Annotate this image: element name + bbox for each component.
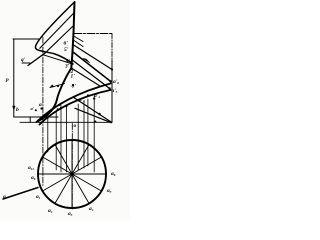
projection vertical 3 [60, 109, 62, 172]
horizontal construction line [74, 33, 112, 35]
svg-text:a': a' [39, 102, 44, 108]
projection vertical 8 [93, 96, 95, 172]
q trace bottom [3, 188, 38, 200]
thick section line U [37, 84, 111, 123]
projection vertical 4 [65, 107, 67, 172]
projection vertical 2 [55, 111, 57, 170]
projection vertical 6 [83, 101, 85, 168]
generator D1 [73, 97, 112, 122]
left slant edge from apex [35, 2, 74, 64]
centerline bottom view [71, 124, 73, 210]
svg-text:0': 0' [72, 84, 77, 90]
dimension arrow bottom [13, 106, 16, 110]
svg-text:6': 6' [64, 41, 69, 47]
left bracket horizontal [13, 38, 40, 40]
left dimension vertical [13, 39, 15, 117]
svg-text:3': 3' [64, 64, 70, 70]
svg-text:q: q [3, 194, 6, 200]
right vertical dash-dot [111, 34, 113, 61]
spokes 12 [38, 140, 106, 208]
plane trace q' [28, 53, 46, 66]
lower horizontal 1 [14, 116, 58, 118]
fan line F1 [74, 45, 112, 70]
svg-text:a': a' [59, 102, 64, 108]
q' label leader [22, 62, 30, 64]
tick t1 [75, 37, 84, 42]
cone contour lower bend [38, 68, 72, 122]
hub dot [70, 172, 74, 176]
axis dash-dot x=43 [42, 37, 44, 186]
fan line F2 [73, 52, 111, 81]
base circle top view [38, 140, 106, 208]
svg-text:5': 5' [64, 47, 69, 53]
projection vertical 5 [77, 104, 79, 170]
svg-text:b: b [16, 107, 19, 113]
generator chord B [40, 13, 74, 48]
fan line F3 [72, 60, 109, 89]
svg-text:o: o [74, 123, 77, 129]
svg-text:o': o' [50, 108, 55, 114]
svg-text:q': q' [21, 57, 26, 63]
generator chord C [47, 27, 73, 52]
svg-text:p: p [5, 77, 9, 83]
transfer arrow [83, 59, 90, 64]
tick t2 [74, 41, 83, 47]
projection vertical 1 [47, 113, 49, 152]
point dots [109, 80, 111, 82]
point b arrow [50, 84, 65, 88]
cone contour spine (front view outline) [71, 2, 74, 68]
transfer line from axis to spine [43, 55, 73, 64]
small connector vertical [29, 117, 31, 122]
generator D2 [75, 108, 112, 123]
thick section line L [40, 90, 111, 125]
svg-text:1': 1' [71, 74, 76, 80]
fan line F4 [71, 68, 100, 86]
projection vertical 7 [87, 99, 89, 166]
lower horizontal 2 [20, 121, 112, 123]
